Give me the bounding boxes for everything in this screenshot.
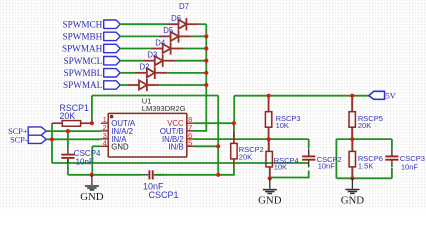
wire CSCP3 top drop	[391, 139, 393, 148]
capacitor CSCP1 10nF	[141, 174, 148, 176]
junction OUT/A on analog rail	[216, 173, 220, 177]
wire node OUT/A up	[91, 96, 93, 124]
wire RSCP4 bottom	[269, 167, 271, 179]
resistor RSCP5 20K	[349, 112, 355, 128]
svg-text:D6: D6	[171, 14, 181, 23]
junction GND 2	[268, 176, 272, 180]
wire 5V rail down to VCC junction	[233, 96, 235, 124]
svg-text:10nF: 10nF	[76, 157, 94, 166]
svg-text:SPWMAL: SPWMAL	[63, 80, 103, 90]
wire pin 8 VCC	[194, 122, 234, 124]
wire RSCP3 top	[268, 96, 270, 112]
resistor lead	[351, 127, 353, 139]
ground GND right	[345, 178, 359, 193]
svg-text:GND: GND	[80, 191, 104, 203]
wire CSCP2 top drop	[308, 139, 310, 148]
diode D2	[127, 79, 159, 91]
svg-text:CSCP1: CSCP1	[149, 190, 179, 200]
junction GND under U1	[90, 173, 94, 177]
junction node OUT/A at pin 1	[90, 121, 94, 125]
wire pin 5 to vertical	[194, 145, 218, 147]
wire SPWMAH to diode D5 anode	[120, 48, 151, 50]
junction pin 5	[216, 144, 220, 148]
U1 pin 1 stub	[101, 122, 108, 124]
wire RSCP6 top	[351, 139, 353, 151]
resistor lead	[268, 127, 270, 139]
wire diode D4 cathode to bus	[175, 60, 206, 62]
wire right loop bottom rail	[336, 177, 392, 179]
wire RSCP1 left down to GND rail	[51, 123, 53, 163]
port SPWMBH	[104, 32, 121, 40]
junction RSCP5 top on 5V	[350, 94, 354, 98]
wire CSCP3 bottom drop	[391, 168, 393, 178]
wire pin 6 to CSCP2	[194, 138, 309, 140]
wire diode D7 cathode to bus	[199, 23, 207, 25]
U1 pin 2 stub	[101, 130, 108, 132]
port SCP+	[28, 127, 46, 135]
svg-text:LM393DR2G: LM393DR2G	[142, 104, 186, 113]
ground GND under U1	[85, 175, 99, 190]
U1 pin 3 stub	[101, 138, 108, 140]
op-amp U1 LM393DR2G body	[108, 113, 187, 157]
junction diode bus row 4	[204, 59, 208, 63]
svg-text:SPWMCL: SPWMCL	[63, 56, 102, 66]
svg-text:5: 5	[188, 138, 192, 147]
U1 pin 8 stub	[187, 122, 194, 124]
wire CSCP4 bottom	[67, 159, 69, 163]
U1 pin 7 stub	[187, 130, 194, 132]
svg-text:10nF: 10nF	[401, 162, 419, 171]
wire RSCP3 bottom to junction	[268, 127, 270, 139]
svg-text:10K: 10K	[274, 162, 287, 171]
svg-text:4: 4	[103, 138, 107, 147]
svg-text:10nF: 10nF	[318, 162, 336, 171]
junction diode bus row 2	[204, 34, 208, 38]
resistor lead	[351, 167, 353, 178]
svg-text:D7: D7	[179, 2, 189, 11]
resistor lead	[269, 167, 271, 178]
capacitor CSCP4 10nF	[67, 147, 69, 154]
resistor RSCP1 20K	[52, 122, 62, 124]
svg-text:20K: 20K	[60, 111, 76, 121]
port SCP-	[28, 135, 46, 143]
svg-text:D2: D2	[140, 63, 150, 72]
junction SCP+ CSCP4	[66, 129, 70, 133]
wire diode D5 cathode to bus	[183, 48, 206, 50]
U1 pin 5 stub	[187, 145, 194, 147]
diode D6	[159, 30, 191, 42]
resistor lead	[351, 140, 353, 152]
wire diode D3 cathode to bus	[167, 72, 206, 74]
wire GND rail left drop	[67, 163, 69, 175]
wire RSCP6 bottom	[351, 167, 353, 179]
resistor RSCP3 10K	[265, 112, 271, 128]
wire SPWMAL to diode D2 anode	[120, 84, 127, 86]
power flag 5V	[369, 91, 385, 99]
wire SPWMBL to diode D3 anode	[120, 72, 135, 74]
junction RSCP3 RSCP4 pin 6	[267, 137, 271, 141]
svg-text:SPWMCH: SPWMCH	[62, 19, 102, 29]
wire OUT/A down right of U1	[217, 96, 219, 175]
svg-text:D5: D5	[163, 26, 174, 35]
resistor lead	[268, 97, 270, 113]
wire SPWMCH to diode D7 anode	[120, 23, 166, 25]
wire SCP- to pin 3	[46, 138, 101, 140]
wire CSCP1 to RSCP2 bottom	[156, 166, 234, 175]
junction diode bus row 6	[204, 83, 208, 87]
wire pin 4 GND stub	[92, 145, 101, 147]
svg-text:SCP-: SCP-	[10, 135, 28, 144]
resistor lead	[351, 97, 353, 113]
svg-text:IN/B: IN/B	[169, 142, 184, 151]
wire node OUT/A across top	[92, 95, 218, 97]
svg-text:GND: GND	[258, 194, 282, 206]
svg-text:1.5K: 1.5K	[358, 162, 373, 171]
capacitor CSCP3 10nF	[385, 156, 398, 159]
wire GND net horizontal long	[52, 162, 309, 164]
junction diode bus row 5	[204, 71, 208, 75]
wire diode D2 cathode to bus	[159, 84, 206, 86]
resistor lead	[268, 140, 270, 152]
svg-text:D4: D4	[155, 38, 166, 47]
diode D7	[167, 18, 199, 30]
wire SPWMBH to diode D6 anode	[120, 35, 159, 37]
svg-text:5V: 5V	[386, 91, 396, 100]
diode D4	[143, 55, 175, 67]
junction RSCP3 top on 5V	[267, 94, 271, 98]
wire SPWMCL to diode D4 anode	[120, 60, 143, 62]
port SPWMAH	[104, 44, 121, 52]
wire GND rail to CSCP1	[68, 174, 141, 176]
U1 pin-1 marker	[110, 115, 114, 119]
diode D3	[135, 67, 167, 79]
wire 5V rail	[234, 95, 369, 97]
port SPWMAL	[104, 81, 121, 89]
resistor RSCP6 1.5K	[349, 151, 355, 167]
wire SCP+ to pin 2	[46, 130, 101, 132]
capacitor CSCP2 10nF	[302, 156, 315, 159]
wire RSCP5 top	[351, 96, 353, 112]
wire right loop left vertical	[335, 139, 337, 178]
wire RSCP4 top	[268, 139, 270, 151]
junction SCP- GND column	[50, 137, 54, 141]
junction VCC	[232, 121, 236, 125]
svg-text:GND: GND	[341, 194, 365, 206]
junction diode bus row 3	[204, 46, 208, 50]
port SPWMCL	[104, 57, 121, 65]
wire diode D6 cathode to bus	[191, 35, 206, 37]
svg-text:SPWMAH: SPWMAH	[62, 44, 103, 54]
port SPWMCH	[104, 20, 121, 28]
junction GND 3	[350, 176, 354, 180]
junction RSCP5 RSCP6	[350, 137, 354, 141]
svg-text:20K: 20K	[358, 121, 371, 130]
wire pin 4 down to GND rail	[91, 146, 93, 175]
wire diode output bus vertical	[194, 24, 206, 131]
wire RSCP2 top connection	[233, 123, 235, 138]
svg-text:GND: GND	[111, 142, 129, 151]
wire RSCP5 bottom	[351, 127, 353, 139]
U1 pin 4 stub	[101, 145, 108, 147]
wire CSCP4 top drop	[67, 131, 69, 147]
port SPWMBL	[104, 69, 121, 77]
ground GND middle	[263, 178, 277, 193]
svg-text:10K: 10K	[276, 121, 289, 130]
wire CSCP2 bottom to GND junction	[270, 171, 309, 178]
resistor lead	[233, 132, 235, 144]
svg-text:D3: D3	[147, 51, 157, 60]
resistor RSCP2 20K	[231, 143, 237, 159]
resistor lead	[233, 159, 235, 167]
svg-text:SPWMBL: SPWMBL	[63, 68, 102, 78]
U1 pin 6 stub	[187, 138, 194, 140]
svg-text:20K: 20K	[239, 153, 252, 162]
diode D5	[151, 42, 183, 54]
svg-text:SPWMBH: SPWMBH	[62, 32, 102, 42]
wire right loop top rail	[336, 138, 392, 140]
resistor RSCP4 10K	[266, 151, 272, 167]
